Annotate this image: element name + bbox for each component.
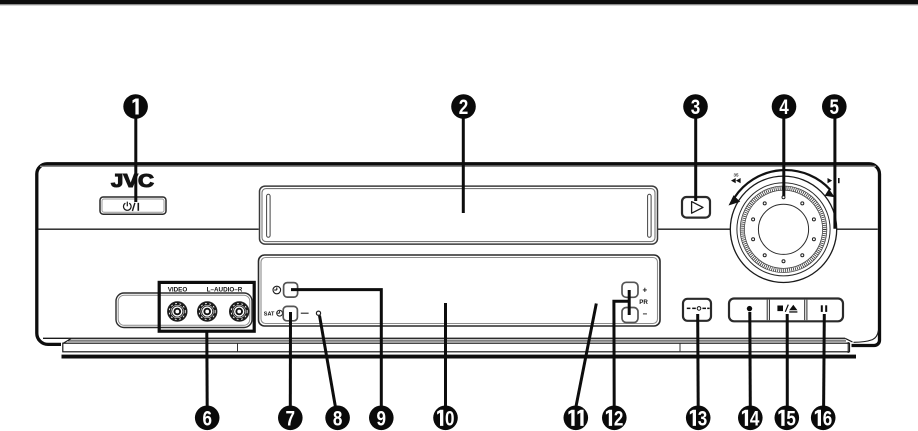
callout 11 [564, 406, 589, 431]
forward marking [828, 178, 833, 183]
leader line 9 [291, 290, 381, 409]
svg-text:PR: PR [639, 299, 648, 306]
power symbol on power button [124, 202, 139, 211]
svg-text:2: 2 [614, 407, 624, 430]
tray left slant edge [63, 339, 71, 344]
callout 12 [602, 406, 627, 431]
svg-text:0: 0 [445, 407, 455, 430]
callout 10 [433, 406, 458, 431]
leader line 13 [696, 314, 700, 409]
play button [682, 197, 710, 218]
SAT LED [316, 311, 320, 315]
dial second circle [737, 183, 830, 276]
SAT button [283, 306, 297, 320]
svg-text:4: 4 [779, 96, 789, 119]
leader line 16 [822, 314, 826, 409]
divider line mid segment [658, 228, 731, 230]
dial knurl ring [742, 188, 824, 270]
display strip outer [259, 255, 661, 326]
cassette door left slot [267, 194, 271, 237]
VCR front panel body [37, 164, 880, 346]
svg-text:5: 5 [786, 407, 796, 430]
svg-text:3: 3 [698, 407, 708, 430]
leader line 3 [694, 112, 697, 201]
leader line 6 [205, 332, 208, 410]
callout 6 [195, 406, 220, 431]
tray right edge double line [847, 342, 849, 353]
callout 16 [811, 406, 836, 431]
dial outer circle [730, 176, 836, 282]
divider line left segment [38, 228, 258, 230]
panel bottom thin edge [43, 337, 845, 339]
callout 7 [278, 406, 303, 431]
svg-text:SAT: SAT [264, 311, 275, 317]
leader line 15 [786, 314, 789, 409]
leader line 11 [576, 304, 597, 410]
leader line 7 [289, 312, 292, 409]
svg-text:7: 7 [286, 407, 296, 430]
stop square [777, 306, 783, 312]
svg-text:VIDEO: VIDEO [168, 286, 188, 293]
callout 4 [772, 94, 797, 119]
shuttle arc right arrowhead [825, 189, 835, 197]
panel top inner bevel [40, 165, 876, 167]
svg-text:+: + [642, 285, 647, 294]
leader line 2 [462, 112, 465, 213]
transport button group [729, 299, 843, 322]
tray step left [237, 343, 239, 352]
divider line right segment [836, 228, 878, 230]
power button [100, 197, 166, 214]
cassette door right slot [648, 194, 652, 237]
svg-text:8: 8 [333, 407, 343, 430]
dash between SAT button and LED [301, 312, 309, 314]
svg-text:6: 6 [202, 407, 212, 430]
shuttle arc [735, 170, 831, 197]
lower-left recess flap [116, 293, 252, 328]
play triangle [692, 202, 703, 214]
pause bars [821, 305, 823, 312]
record dot [747, 306, 752, 311]
AUDIO R jack [230, 302, 249, 321]
svg-text:4: 4 [750, 407, 760, 430]
leader line 10 [444, 303, 447, 409]
callout 5 [822, 94, 847, 119]
PR - button [622, 308, 638, 323]
cassette door inner [262, 189, 655, 242]
callout 14 [738, 406, 763, 431]
leader line 12 [614, 290, 629, 409]
dial center knob [758, 204, 808, 254]
svg-text:9: 9 [377, 407, 387, 430]
tray front face [63, 343, 850, 352]
dial dot ring [752, 196, 816, 263]
SAT clock icon [277, 310, 283, 316]
panel bottom right curl inner line [854, 331, 879, 343]
svg-text:−: − [642, 310, 647, 319]
callout 15 [775, 406, 800, 431]
AUDIO L jack [198, 302, 217, 321]
callout 2 [451, 94, 476, 119]
shuttle arc left arrowhead [729, 195, 741, 205]
display strip inner [261, 258, 658, 324]
AV jack box (bold frame) [159, 282, 254, 331]
leader line 14 [748, 312, 752, 409]
timer set button [284, 283, 298, 298]
callout 13 [686, 406, 711, 431]
svg-text:2: 2 [459, 96, 469, 119]
svg-text:3: 3 [691, 96, 701, 119]
cassette door outer [260, 186, 658, 244]
svg-text:L–AUDIO–R: L–AUDIO–R [207, 286, 243, 293]
leader line 4 [782, 112, 785, 196]
counter reset button [683, 299, 711, 321]
callout 8 [325, 406, 350, 431]
panel bottom right wedge [845, 338, 853, 342]
svg-text:5: 5 [830, 96, 840, 119]
callout 9 [369, 406, 394, 431]
leader line 1 [134, 112, 137, 202]
PR + button [622, 282, 638, 297]
svg-text:6: 6 [823, 407, 833, 430]
callout 1 [123, 94, 148, 119]
jog shuttle dial [730, 176, 836, 282]
leader line 5 [833, 112, 836, 229]
tray ground shadow bar [62, 355, 857, 359]
svg-text:35: 35 [733, 173, 739, 178]
eject triangle [789, 305, 797, 311]
svg-text:JVC: JVC [111, 170, 154, 191]
top page rule bar [0, 0, 918, 4]
timer clock icon [273, 286, 281, 294]
tray step right [679, 343, 681, 352]
tray gray top band [68, 339, 846, 341]
leader line 8 [320, 316, 336, 410]
VIDEO jack [168, 302, 187, 321]
callout 3 [683, 94, 708, 119]
slash [785, 305, 788, 312]
